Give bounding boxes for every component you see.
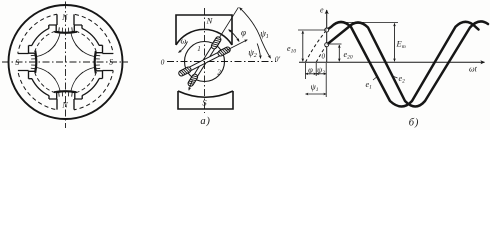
dashed extensions to zero crossings <box>306 30 327 62</box>
svg-text:N: N <box>61 13 68 22</box>
psi2 arc r=56 from 24deg to 3deg <box>257 44 260 59</box>
svg-text:e2: e2 <box>399 74 406 85</box>
svg-text:S: S <box>15 58 19 67</box>
svg-text:e: e <box>320 6 324 15</box>
svg-text:N: N <box>61 100 68 109</box>
svg-text:S: S <box>109 57 113 66</box>
sine e1 (thick): start (326.7,30) peak(339.5,21.5) cross(371) trough(402.5,105) cross(434) peak(465.5,21.8) <box>327 22 479 107</box>
coil 2 rod (27 deg) <box>178 46 231 77</box>
stator outer ring <box>9 5 123 119</box>
sine e2 (thick): start (326.7,44.5) peak(358,22) cross(387.5) trough(417.5,105.5) cross(448.5) peak(481,22) <box>327 21 488 106</box>
svg-text:0: 0 <box>322 53 326 61</box>
e10 measure <box>298 29 327 31</box>
N pole block <box>176 15 232 45</box>
machine center lines (dash-dot) <box>2 2 128 129</box>
phase dimension ticks and arrows below axis <box>306 63 327 97</box>
svg-text:ψ1: ψ1 <box>310 82 318 93</box>
svg-text:0: 0 <box>161 58 165 67</box>
pole S left <box>16 46 37 79</box>
pole N top <box>49 13 82 34</box>
inner dashed bore flux arcs r=32.5 <box>35 31 97 93</box>
svg-text:2: 2 <box>217 69 221 77</box>
psi1 arc r=64 from 58deg to 2deg <box>240 8 271 59</box>
axes <box>299 10 485 62</box>
svg-text:б): б) <box>409 118 419 129</box>
svg-text:ω: ω <box>181 36 187 46</box>
rotor circle <box>185 42 225 82</box>
svg-text:Em: Em <box>396 39 406 51</box>
svg-text:а): а) <box>200 116 210 127</box>
start markers <box>325 28 329 32</box>
e20 measure <box>327 43 342 45</box>
curve labels with leaders <box>373 77 377 81</box>
svg-text:e20: e20 <box>344 50 353 61</box>
coil 1 rod (58 deg) <box>187 36 222 87</box>
svg-text:N: N <box>206 16 214 26</box>
S pole block <box>178 91 233 109</box>
rod1 lower tip <box>189 80 193 91</box>
coil plane extension lines <box>220 7 239 37</box>
svg-text:1: 1 <box>197 45 201 53</box>
svg-text:e10: e10 <box>287 44 296 55</box>
svg-text:0′: 0′ <box>275 55 281 64</box>
svg-text:S: S <box>202 98 207 108</box>
svg-text:ψ1: ψ1 <box>260 29 269 41</box>
flux flares near center <box>37 33 95 91</box>
Em measure <box>342 21 398 23</box>
svg-text:e1: e1 <box>366 80 373 91</box>
pole S right <box>94 45 115 78</box>
svg-text:ψ2: ψ2 <box>248 48 257 60</box>
omega rotation arrow <box>179 42 188 53</box>
pole N bottom <box>49 91 82 112</box>
middle centerlines <box>167 8 276 113</box>
dashed yoke flux circle <box>17 14 114 111</box>
svg-text:φ: φ <box>308 65 313 75</box>
svg-text:φ: φ <box>241 28 246 38</box>
svg-text:ψ2: ψ2 <box>317 65 325 76</box>
inter-pole solid scallop arcs r=38 <box>32 28 99 95</box>
phi arc r=40 from 53deg to 30deg <box>229 30 240 42</box>
svg-text:ωt: ωt <box>469 65 478 74</box>
